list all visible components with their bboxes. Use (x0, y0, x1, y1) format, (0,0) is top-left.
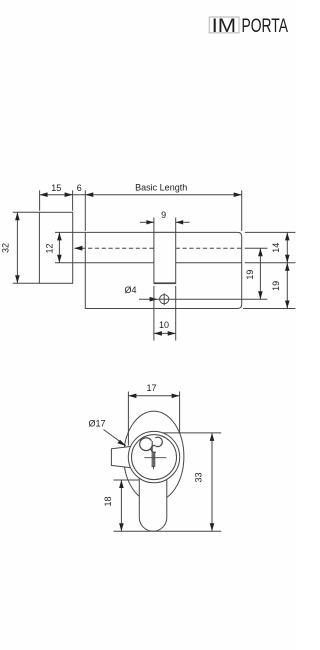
dimension 33 extension top (163, 432, 222, 434)
arrowhead at 15 left (40, 192, 48, 197)
dimension 33 extension bottom (114, 530, 222, 532)
extension line for 15 left (39, 190, 41, 211)
dimension 32 extension top (13, 211, 40, 213)
keyway left lobe (140, 438, 152, 451)
hole vertical centerline (163, 293, 165, 305)
svg-text:19: 19 (271, 281, 281, 291)
dimension 18 line (120, 480, 122, 531)
keyway stem right edge (154, 452, 156, 466)
svg-text:15: 15 (51, 183, 61, 193)
knob (side view) (39, 212, 72, 283)
knob thumb tip (111, 446, 132, 468)
right extension line body bottom (243, 308, 295, 310)
svg-text:18: 18 (103, 496, 113, 506)
dimension 17 extension left (127, 392, 129, 446)
cylinder face outer circle (128, 431, 179, 482)
barrel bottom line left segment (85, 262, 154, 264)
svg-text:19: 19 (245, 270, 255, 280)
diameter 17 leader line (104, 430, 126, 446)
dimension 19 outer line (286, 263, 288, 309)
dimension 14 line (286, 232, 288, 262)
right extension line top (245, 231, 296, 233)
extension line for 6/basic length (84, 190, 86, 231)
extension line for 15/6 (72, 190, 74, 211)
dimension 17 extension right (179, 392, 181, 433)
svg-text:Ø4: Ø4 (124, 285, 136, 295)
svg-text:17: 17 (146, 383, 156, 393)
hole Ø4 circle (160, 295, 169, 304)
dimension 19 inner line (259, 248, 261, 299)
arrowhead at basic length left (85, 192, 93, 197)
diameter 17 leader arrowhead (117, 440, 126, 446)
svg-text:14: 14 (271, 243, 281, 253)
dimension 32 extension bottom (13, 282, 40, 284)
dimension 33 line (211, 433, 213, 531)
svg-text:33: 33 (194, 472, 204, 482)
dimension 17 line (128, 395, 179, 397)
dimension 18 extension top (114, 479, 140, 481)
svg-text:6: 6 (77, 183, 82, 193)
arrowhead at basic length right (234, 192, 242, 197)
cylinder body outline (85, 232, 241, 308)
dashed centerline left segment (75, 247, 154, 249)
keyway crosshair vertical (152, 452, 154, 469)
right extension line barrel bottom (245, 262, 296, 264)
top dimension line (15 / 6 / Basic Length) (40, 194, 242, 196)
svg-text:32: 32 (1, 243, 11, 253)
svg-text:PORTA: PORTA (242, 15, 289, 37)
hole horizontal centerline / leader (139, 298, 267, 300)
dimension 9 extension line left (153, 218, 155, 233)
dimension 32 line (16, 212, 18, 283)
extension line for basic length right (241, 190, 243, 231)
dashed centerline right segment (176, 247, 242, 249)
keyway stem bottom cap (152, 466, 156, 468)
dimension 9 right outside arrow (176, 221, 190, 223)
knob back ellipse (front view) (124, 411, 184, 502)
dimension 9 extension line right (175, 218, 177, 233)
neck bottom line (with 12-dim extension into knob) (55, 262, 85, 264)
svg-text:9: 9 (161, 210, 166, 220)
logo IMPORTA box (209, 17, 239, 33)
profile lower body (front view) (139, 475, 167, 531)
hole leader arrowhead (150, 297, 158, 302)
svg-text:Basic Length: Basic Length (135, 183, 187, 193)
dimension 10 line (154, 332, 176, 334)
dimension 12 line (58, 232, 60, 262)
keyway crosshair horizontal (144, 457, 166, 459)
cam rectangle (154, 232, 176, 283)
neck top line (with 12-dim extension into knob) (55, 231, 85, 233)
dimension 10 extension line left (153, 286, 155, 341)
right extension line centerline (245, 247, 268, 249)
keyway stem left edge (151, 441, 153, 466)
dimension 9 left outside arrow (140, 221, 154, 223)
svg-text:Ø17: Ø17 (88, 419, 105, 429)
cam bottom thick edge (154, 282, 176, 284)
svg-text:IM: IM (212, 15, 237, 37)
svg-text:12: 12 (45, 243, 55, 253)
arrowhead at 15 right (65, 192, 73, 197)
dimension 10 extension line right (175, 286, 177, 341)
svg-text:10: 10 (159, 320, 169, 330)
barrel bottom line right segment (176, 262, 242, 264)
keyway right lobe (151, 437, 162, 452)
cylinder face inner circle (132, 435, 177, 480)
centerline arrowhead at neck (74, 246, 82, 251)
